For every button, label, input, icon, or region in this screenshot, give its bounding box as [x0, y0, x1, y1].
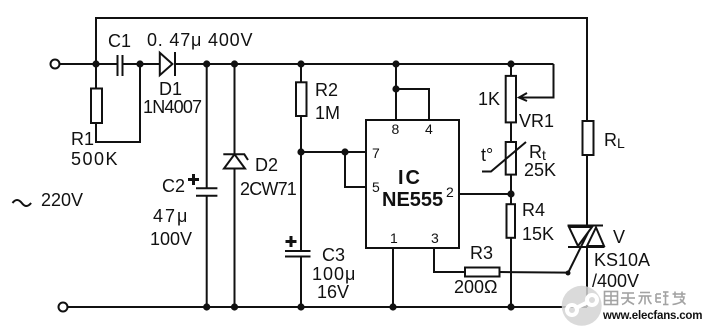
svg-text:/400V: /400V: [592, 271, 639, 291]
svg-text:C1: C1: [108, 31, 131, 51]
node main rail pin8: [392, 60, 399, 67]
wire top rail: [96, 18, 587, 121]
svg-text:5: 5: [372, 179, 380, 195]
wire triac gate: [568, 227, 591, 274]
node ground C2: [203, 303, 210, 310]
svg-text:2: 2: [446, 184, 454, 200]
svg-text:2CW71: 2CW71: [240, 179, 297, 199]
node ground pin1: [389, 303, 396, 310]
watermark icon: [562, 286, 602, 326]
svg-text:IC: IC: [398, 167, 422, 189]
wire bottom rail: [68, 306, 588, 308]
wire R1 loop: [96, 64, 140, 142]
capacitor C1: [118, 55, 123, 76]
node main rail R1: [92, 60, 99, 67]
node pin2 junction: [507, 190, 514, 197]
node main rail R2: [297, 60, 304, 67]
svg-text:D2: D2: [255, 155, 278, 175]
wire VR1 to Rt: [510, 122, 512, 142]
svg-text:220V: 220V: [41, 190, 83, 210]
wire triac to ground: [586, 247, 588, 307]
node ground C3: [297, 303, 304, 310]
node main rail C1 right: [136, 60, 143, 67]
diode D1: [160, 52, 175, 76]
wire R4 to ground: [510, 238, 512, 307]
plus sign C3: [286, 236, 297, 247]
watermark text: [602, 292, 702, 323]
wire R3 to gate: [500, 271, 569, 274]
svg-text:V: V: [613, 227, 625, 247]
wire pin 1: [392, 248, 394, 307]
svg-text:t°: t°: [481, 145, 493, 165]
svg-text:0. 47μ 400V: 0. 47μ 400V: [147, 30, 253, 50]
wire pin 4: [396, 89, 429, 120]
wire pin 5: [345, 152, 366, 187]
node main rail D2: [231, 60, 238, 67]
wire VR1 wiper: [519, 64, 554, 98]
wire R2 C3 branch: [300, 64, 302, 82]
svg-text:200Ω: 200Ω: [454, 277, 498, 297]
svg-text:25K: 25K: [524, 160, 556, 180]
svg-text:R1: R1: [71, 129, 94, 149]
svg-text:4: 4: [425, 121, 433, 137]
node gate: [566, 271, 571, 276]
wire main rail D1 to wiper bend: [175, 63, 554, 65]
resistor R2: [296, 82, 307, 116]
op-amp U1 IC NE555 box: [366, 120, 459, 248]
svg-text:15K: 15K: [522, 224, 554, 244]
svg-text:1M: 1M: [315, 103, 340, 123]
svg-text:R3: R3: [470, 243, 493, 263]
wire main rail C1 to D1: [123, 63, 160, 65]
svg-text:100V: 100V: [150, 229, 192, 249]
AC source symbol: [13, 200, 32, 206]
terminal lower: [59, 303, 68, 312]
node pin4 junction: [392, 85, 399, 92]
wire C2 branch lower: [206, 196, 208, 307]
svg-text:16V: 16V: [317, 282, 349, 302]
resistor R3: [465, 268, 500, 277]
zener diode D2: [223, 154, 248, 168]
wire D2 branch upper: [234, 64, 236, 154]
resistor RL: [583, 121, 594, 155]
wire Rt to node: [510, 175, 512, 205]
wire pin 3 to R3: [434, 248, 465, 272]
svg-text:500K: 500K: [71, 149, 119, 169]
node pin5 branch: [341, 148, 348, 155]
wire node to C3: [300, 152, 302, 251]
wire C3 to ground: [300, 257, 302, 307]
wire pin 7: [301, 151, 366, 153]
wire RL to triac: [586, 155, 588, 226]
svg-text:1: 1: [390, 230, 398, 246]
svg-text:7: 7: [372, 145, 380, 161]
wire R2 to pin7 node: [300, 116, 302, 152]
svg-text:www.elecfans.com: www.elecfans.com: [602, 310, 702, 322]
node main rail VR1: [507, 60, 514, 67]
node main rail C2: [203, 60, 210, 67]
wire C2 branch upper: [206, 64, 208, 188]
triac V: [568, 226, 605, 248]
svg-text:R4: R4: [522, 200, 545, 220]
svg-text:47μ: 47μ: [153, 206, 189, 226]
wire D2 branch lower: [234, 169, 236, 308]
capacitor C3: [285, 251, 311, 257]
plus sign C2: [188, 174, 199, 185]
wire VR1 top: [510, 64, 512, 76]
svg-text:8: 8: [392, 121, 400, 137]
wire pin 2: [459, 193, 511, 195]
svg-text:KS10A: KS10A: [594, 250, 650, 270]
potentiometer VR1: [506, 76, 527, 123]
svg-text:D1: D1: [159, 79, 182, 99]
svg-text:R2: R2: [315, 80, 338, 100]
thermistor Rt: [482, 142, 526, 175]
resistor R4: [507, 204, 516, 238]
terminal upper: [51, 60, 60, 69]
wire main rail left: [59, 63, 117, 65]
node R2 bottom: [297, 148, 304, 155]
svg-text:1N4007: 1N4007: [143, 97, 202, 117]
svg-text:VR1: VR1: [519, 111, 554, 131]
node ground R4: [507, 303, 514, 310]
node ground D2: [231, 303, 238, 310]
resistor R1: [91, 89, 102, 124]
svg-text:C2: C2: [162, 176, 185, 196]
svg-text:NE555: NE555: [382, 189, 443, 211]
capacitor C2: [196, 188, 217, 196]
svg-text:C3: C3: [322, 245, 345, 265]
svg-text:100μ: 100μ: [312, 264, 356, 284]
svg-text:1K: 1K: [478, 89, 500, 109]
svg-text:3: 3: [431, 230, 439, 246]
wire pin 8: [395, 64, 397, 120]
